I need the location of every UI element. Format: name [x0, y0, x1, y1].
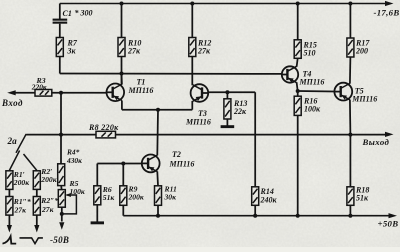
svg-text:-50В: -50В: [50, 235, 69, 245]
svg-text:МП116: МП116: [128, 86, 154, 95]
svg-text:200: 200: [355, 47, 368, 56]
svg-text:510: 510: [304, 49, 316, 58]
svg-text:МП116: МП116: [185, 117, 211, 126]
svg-text:100к: 100к: [70, 187, 85, 196]
svg-text:* 300: * 300: [75, 9, 93, 18]
svg-text:27к: 27к: [197, 47, 211, 56]
svg-text:100к: 100к: [304, 105, 321, 114]
svg-text:МП116: МП116: [351, 95, 377, 104]
svg-text:30к: 30к: [164, 193, 177, 202]
svg-text:3к: 3к: [67, 47, 77, 56]
svg-text:Т1: Т1: [137, 77, 146, 86]
svg-text:Выход: Выход: [362, 137, 390, 147]
svg-text:220к: 220к: [31, 83, 47, 92]
svg-text:200к: 200к: [128, 193, 144, 202]
svg-text:200к: 200к: [13, 178, 29, 187]
svg-text:27к: 27к: [127, 47, 141, 56]
svg-text:+50В: +50В: [378, 218, 399, 228]
svg-text:Вход: Вход: [1, 98, 23, 108]
svg-text:22к: 22к: [233, 107, 247, 116]
svg-text:27к: 27к: [41, 205, 54, 214]
svg-text:R8 220к: R8 220к: [88, 123, 119, 132]
svg-text:С1: С1: [63, 9, 72, 18]
svg-text:430к: 430к: [66, 156, 82, 165]
svg-text:МП116: МП116: [299, 77, 325, 86]
svg-text:27к: 27к: [14, 205, 27, 214]
svg-text:-17,6В: -17,6В: [374, 8, 400, 18]
svg-text:51к: 51к: [356, 194, 369, 203]
svg-text:2а: 2а: [7, 136, 18, 146]
svg-text:Т2: Т2: [172, 150, 181, 159]
svg-text:МП116: МП116: [169, 159, 195, 168]
svg-text:51к: 51к: [103, 193, 115, 202]
svg-text:200к: 200к: [40, 175, 56, 184]
svg-text:240к: 240к: [260, 196, 278, 205]
